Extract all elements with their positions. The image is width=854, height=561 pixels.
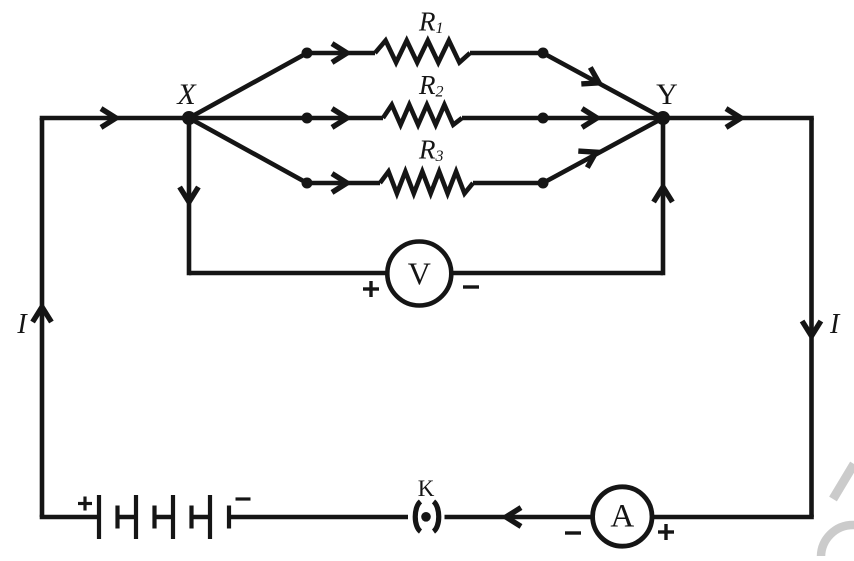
svg-text:I: I (16, 309, 28, 340)
svg-text:R1: R1 (418, 7, 444, 38)
svg-text:X: X (176, 78, 197, 111)
svg-text:Y: Y (656, 78, 678, 111)
svg-text:I: I (829, 309, 841, 340)
svg-text:K: K (418, 476, 435, 501)
svg-text:R3: R3 (418, 135, 444, 166)
svg-text:A: A (610, 499, 634, 535)
svg-text:V: V (408, 256, 431, 292)
svg-text:R2: R2 (418, 70, 444, 101)
